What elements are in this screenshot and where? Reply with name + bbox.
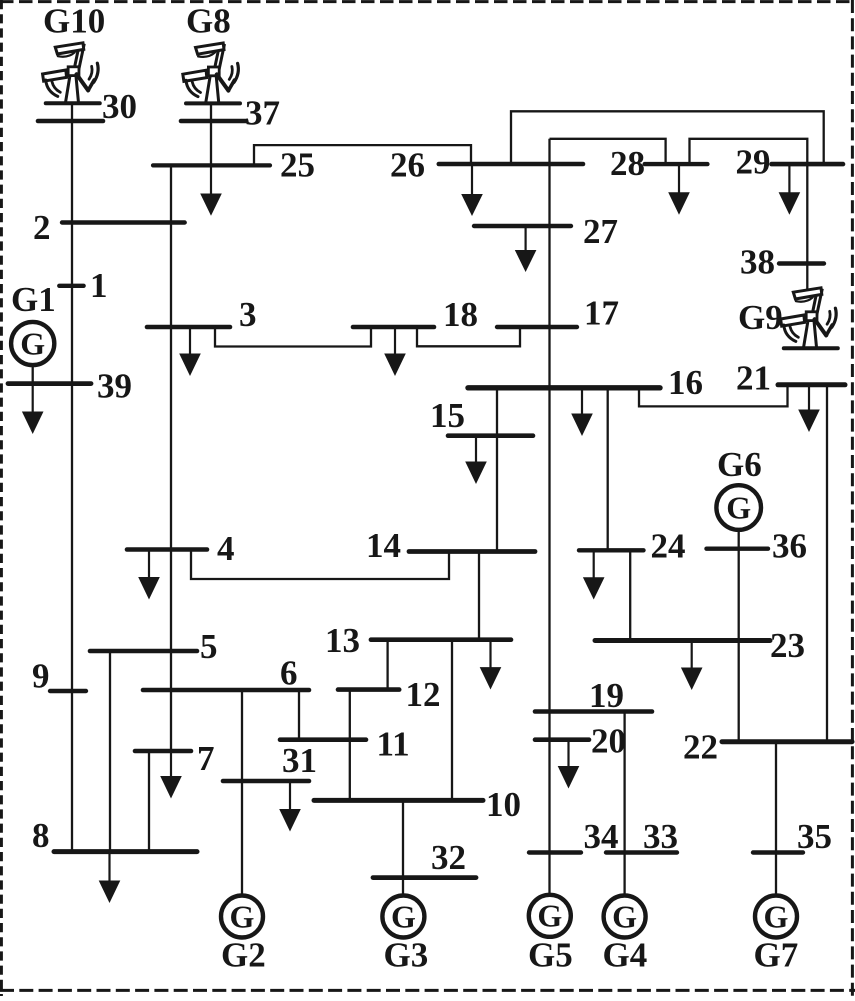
wire 18-17	[417, 327, 520, 346]
svg-text:G5: G5	[528, 936, 573, 975]
svg-text:G: G	[20, 325, 45, 361]
svg-text:12: 12	[406, 675, 441, 714]
svg-text:35: 35	[797, 817, 832, 856]
svg-text:1: 1	[90, 266, 108, 305]
svg-text:25: 25	[280, 146, 315, 185]
bus 20	[535, 722, 626, 761]
svg-text:G3: G3	[384, 936, 429, 975]
svg-text:28: 28	[610, 144, 645, 183]
load arrow at bus 29	[779, 164, 801, 215]
bus 37	[181, 94, 280, 133]
svg-text:37: 37	[245, 94, 280, 133]
wire 28-29	[690, 139, 808, 164]
svg-text:17: 17	[584, 294, 619, 333]
svg-text:G: G	[612, 898, 637, 934]
wire 13-12	[386, 640, 388, 690]
bus 14	[366, 526, 535, 565]
bus 13	[325, 621, 511, 660]
wire 24-23	[629, 550, 631, 640]
wire 3-18	[215, 327, 371, 347]
svg-text:22: 22	[683, 728, 718, 767]
wire 7-8	[148, 751, 150, 852]
bus 33	[606, 817, 678, 856]
generator G2	[221, 896, 266, 975]
generator G3	[382, 896, 428, 975]
bus 18	[353, 295, 478, 334]
load arrow at bus 26	[461, 164, 483, 216]
svg-text:8: 8	[32, 816, 50, 855]
wire 14-13	[478, 552, 480, 640]
bus 8	[32, 816, 197, 855]
wire 26-29	[511, 111, 824, 164]
load arrow at bus 23	[681, 641, 703, 691]
load arrow at bus 39	[22, 384, 44, 434]
svg-text:15: 15	[430, 396, 465, 435]
svg-text:G7: G7	[754, 936, 799, 975]
svg-text:5: 5	[200, 627, 218, 666]
bus 7	[135, 739, 215, 778]
bus 12	[338, 675, 441, 714]
wire 21-22	[826, 385, 828, 742]
svg-text:24: 24	[651, 527, 686, 566]
bus 35	[753, 817, 832, 856]
load arrow at bus 3	[179, 327, 201, 376]
svg-text:G: G	[764, 898, 789, 934]
bus 25	[153, 146, 315, 185]
bus 23	[595, 626, 805, 665]
bus 36	[707, 527, 808, 566]
svg-text:4: 4	[217, 529, 235, 568]
load arrow at bus 7	[160, 751, 182, 799]
svg-text:G10: G10	[43, 2, 105, 41]
wire 4-14	[191, 550, 449, 580]
bus 3	[147, 295, 257, 334]
svg-text:G: G	[230, 898, 255, 934]
wire 13-10	[451, 640, 453, 801]
wire 5-8	[109, 651, 111, 852]
bus 24	[579, 527, 686, 566]
wire 16-15-14 (vertical)	[496, 388, 498, 552]
svg-text:10: 10	[486, 785, 521, 824]
load arrow at bus 20	[558, 740, 580, 789]
load arrow at bus 16	[571, 388, 593, 436]
bus 15	[430, 396, 533, 436]
svg-text:11: 11	[377, 725, 410, 764]
bus 6	[143, 654, 309, 693]
svg-text:31: 31	[282, 741, 317, 780]
wire 12-11-10 (vertical)	[349, 690, 351, 801]
svg-text:18: 18	[443, 295, 478, 334]
load arrow at bus 15	[465, 436, 487, 484]
bus 26	[390, 146, 583, 185]
bus 21	[736, 359, 845, 398]
svg-text:36: 36	[772, 527, 807, 566]
bus 31	[223, 741, 317, 781]
bus 19	[535, 676, 652, 715]
svg-text:33: 33	[643, 817, 678, 856]
load arrow at bus 4	[138, 550, 160, 600]
wind turbine G10	[43, 2, 106, 104]
load arrow at bus 31	[279, 781, 301, 832]
svg-text:G: G	[726, 489, 751, 525]
bus 11	[280, 725, 410, 764]
svg-text:6: 6	[280, 654, 298, 693]
wire 16-24	[607, 388, 609, 551]
wire 29-38 and 38-G9	[806, 164, 808, 290]
generator G4	[603, 896, 648, 975]
wire 10-32-G3 (vertical)	[402, 800, 404, 896]
svg-text:G1: G1	[11, 280, 56, 319]
wind turbine G9	[738, 288, 838, 348]
load arrow at bus 27	[515, 226, 537, 272]
bus 39	[8, 367, 132, 406]
bus 28	[610, 144, 707, 183]
load arrow at bus 28	[668, 164, 690, 215]
wire 19-33-G4 (vertical)	[623, 712, 625, 897]
svg-text:30: 30	[102, 87, 137, 126]
svg-text:13: 13	[325, 621, 360, 660]
bus 34	[529, 817, 619, 856]
svg-text:3: 3	[239, 295, 257, 334]
bus 27	[474, 212, 618, 251]
svg-text:20: 20	[591, 722, 626, 761]
wire 26-27-17-16-19-20-34-G5 (long vertical)	[548, 139, 550, 896]
svg-text:26: 26	[390, 146, 425, 185]
wire 16-21	[639, 385, 788, 407]
wire G8 base-37-25 (vertical)	[210, 105, 212, 166]
wire 22-35-G7 (vertical)	[775, 742, 777, 897]
svg-text:38: 38	[740, 243, 775, 282]
wire G6-36-23-22 (vertical)	[738, 529, 740, 742]
svg-text:29: 29	[736, 143, 771, 182]
load arrow at bus 25	[200, 165, 222, 215]
bus 5	[90, 627, 218, 666]
bus 30	[38, 87, 137, 126]
svg-text:34: 34	[584, 817, 619, 856]
svg-text:G: G	[537, 898, 562, 934]
generator G6	[716, 445, 761, 530]
svg-text:21: 21	[736, 359, 771, 398]
svg-text:16: 16	[668, 363, 703, 402]
wire 6-31-G2 (vertical)	[241, 690, 243, 897]
wire G1-39	[32, 364, 34, 384]
wind turbine G8	[183, 2, 240, 104]
bus 22	[683, 728, 852, 767]
bus 4	[127, 529, 235, 568]
wire 25-2-3-4-5-6-7 (vertical through buses 2,3,4,5,6 to 7)	[170, 165, 172, 751]
load arrow at bus 13	[480, 640, 502, 690]
bus 32	[373, 838, 476, 878]
generator G5	[528, 895, 573, 975]
svg-text:G8: G8	[186, 2, 231, 41]
bus 16	[468, 363, 703, 402]
bus 17	[497, 294, 619, 333]
wire 30-2-1-39-9-8 (vertical through buses 30,2,1,39,9 to 8)	[71, 105, 73, 852]
bus 2	[33, 208, 185, 247]
svg-text:G4: G4	[603, 936, 648, 975]
svg-text:32: 32	[431, 838, 466, 877]
svg-text:7: 7	[197, 739, 215, 778]
bus 10	[314, 785, 521, 824]
bus 29	[736, 143, 844, 182]
bus 1	[59, 266, 107, 305]
load arrow at bus 18	[384, 327, 406, 376]
generator G1	[11, 280, 56, 365]
svg-text:9: 9	[32, 657, 50, 696]
svg-text:2: 2	[33, 208, 51, 247]
svg-text:19: 19	[589, 676, 624, 715]
wire 26-28	[550, 139, 666, 164]
bus 9	[32, 657, 86, 696]
svg-text:G6: G6	[717, 445, 762, 484]
load arrow at bus 21	[798, 385, 820, 432]
svg-text:27: 27	[583, 212, 618, 251]
bus 38	[740, 243, 824, 282]
generator G7	[754, 896, 799, 975]
svg-text:G9: G9	[738, 298, 783, 337]
svg-text:39: 39	[97, 367, 132, 406]
svg-text:14: 14	[366, 526, 401, 565]
svg-text:23: 23	[770, 626, 805, 665]
load arrow at bus 24	[583, 550, 605, 599]
wire 25-26	[254, 145, 471, 165]
svg-text:G2: G2	[221, 936, 266, 975]
wire 6-11	[298, 690, 300, 740]
load arrow at bus 8	[99, 852, 121, 903]
svg-text:G: G	[391, 898, 416, 934]
